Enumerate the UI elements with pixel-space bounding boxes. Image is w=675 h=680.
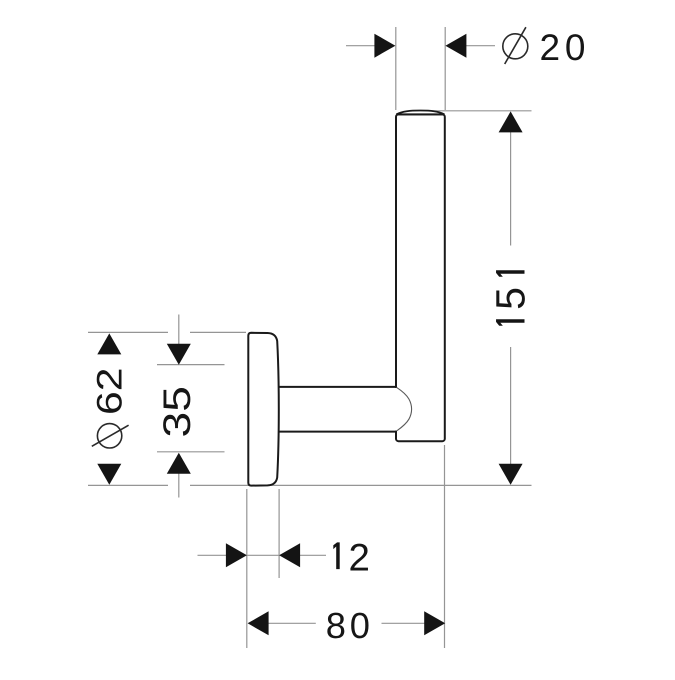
- dim80 left arrowhead: [248, 611, 269, 635]
- dim20 dimension line left tail: [346, 45, 375, 47]
- dim35 lower arrowhead pointing up: [167, 453, 191, 474]
- diameter symbol for dim62 (rotated): [92, 424, 129, 448]
- dim62 bottom arrowhead: [97, 464, 121, 485]
- dim12 value label: [333, 536, 370, 579]
- svg-text:2: 2: [349, 536, 370, 579]
- dim35 dimension line lower overshoot: [178, 473, 180, 498]
- dim20 right arrowhead: [445, 34, 466, 58]
- dim20 right extension line: [444, 27, 446, 110]
- arm opening erase over tube left edge: [279, 388, 399, 431]
- dim12 dimension line right tail: [300, 554, 327, 556]
- arm bottom edge: [276, 431, 395, 433]
- dim151 dimension line lower segment: [510, 347, 512, 465]
- dim35 bottom extension line: [157, 451, 225, 453]
- svg-text:62: 62: [90, 368, 130, 416]
- tube body outline: [396, 114, 445, 441]
- dim151 bottom arrowhead: [499, 464, 523, 485]
- tube top cap dome: [396, 111, 444, 115]
- tube top cap underline: [396, 113, 444, 115]
- dim12 right arrowhead: [279, 543, 300, 567]
- dim62 top arrowhead: [97, 333, 121, 354]
- arm top edge: [276, 386, 397, 388]
- svg-text:20: 20: [540, 27, 591, 68]
- dim151 value label (rotated): [488, 270, 534, 326]
- dim35 dimension line upper overshoot: [178, 315, 180, 346]
- dim80 right arrowhead: [424, 611, 445, 635]
- dim20 left extension line: [395, 27, 397, 110]
- dim151 top extension line: [428, 110, 532, 112]
- dim12 left extension line: [246, 489, 248, 648]
- dim80 dimension line left segment: [268, 622, 316, 624]
- dim12 left arrowhead: [226, 543, 247, 567]
- dim62 top extension line: [88, 331, 168, 333]
- arm rounded end arc inside tube: [397, 387, 412, 430]
- shared bottom extension line for dim62 and dim151: [88, 484, 168, 486]
- dim12 dimension line middle segment: [247, 554, 279, 556]
- dim35 upper arrowhead pointing down: [167, 344, 191, 365]
- svg-text:5: 5: [488, 287, 534, 310]
- diameter symbol for dim20: [503, 27, 528, 64]
- dim80 dimension line right segment: [382, 622, 425, 624]
- wall plate outline: [248, 333, 278, 486]
- dim151 top arrowhead: [499, 111, 523, 132]
- dim12 dimension line left tail: [198, 554, 227, 556]
- dim12 right extension line: [278, 489, 280, 578]
- dim35 top extension line: [157, 364, 225, 366]
- dim80 right extension line: [444, 445, 446, 648]
- dim20 left arrowhead: [374, 34, 395, 58]
- dim151 dimension line upper segment: [510, 131, 512, 246]
- dim20 dimension line right tail: [465, 45, 495, 47]
- svg-text:35: 35: [156, 386, 199, 437]
